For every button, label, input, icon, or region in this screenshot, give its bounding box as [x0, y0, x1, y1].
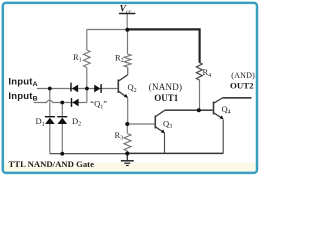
svg-text:R4: R4: [203, 67, 212, 79]
svg-text:R1: R1: [73, 52, 82, 64]
svg-text:Q3: Q3: [163, 118, 172, 130]
svg-text:D2: D2: [72, 116, 81, 128]
svg-text:“Q1”: “Q1”: [90, 99, 107, 111]
svg-text:(NAND): (NAND): [149, 82, 183, 92]
svg-text:InputB: InputB: [8, 91, 37, 103]
svg-text:Q2: Q2: [128, 82, 137, 94]
svg-text:OUT1: OUT1: [154, 93, 179, 103]
svg-text:D1: D1: [36, 116, 45, 128]
svg-text:InputA: InputA: [8, 76, 37, 88]
svg-text:OUT2: OUT2: [230, 81, 254, 91]
svg-text:cc: cc: [126, 8, 132, 15]
svg-text:(AND): (AND): [231, 71, 255, 80]
svg-text:Q4: Q4: [222, 104, 231, 116]
svg-text:R2: R2: [115, 52, 124, 64]
svg-text:R3: R3: [115, 130, 124, 142]
svg-text:TTL NAND/AND Gate: TTL NAND/AND Gate: [9, 159, 95, 169]
